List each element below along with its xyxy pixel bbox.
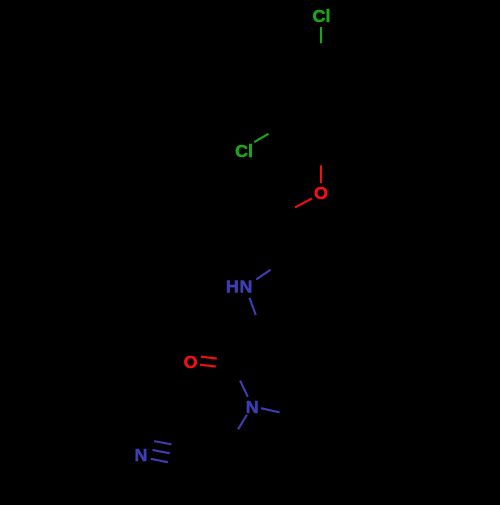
svg-text:N: N — [134, 445, 147, 465]
svg-text:N: N — [246, 397, 259, 417]
svg-text:H: H — [226, 277, 239, 297]
svg-text:O: O — [184, 352, 198, 372]
svg-text:O: O — [314, 183, 328, 203]
svg-text:Cl: Cl — [313, 6, 331, 26]
svg-text:Cl: Cl — [235, 141, 253, 161]
svg-text:N: N — [239, 277, 252, 297]
